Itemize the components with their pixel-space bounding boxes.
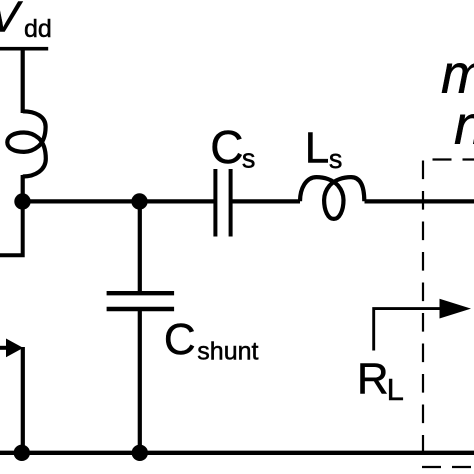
svg-text:s: s <box>329 144 343 174</box>
wire inductor to node A <box>21 175 25 203</box>
wire node B to Cshunt <box>138 202 142 294</box>
label Cshunt <box>164 315 259 366</box>
svg-text:L: L <box>387 372 404 407</box>
svg-text:L: L <box>305 124 329 173</box>
node C (source/ground junction) <box>14 445 30 461</box>
svg-text:shunt: shunt <box>197 337 258 365</box>
svg-text:C: C <box>210 121 243 173</box>
svg-text:n: n <box>454 94 474 156</box>
ground rail (bottom) <box>0 451 474 455</box>
capacitor Cs (series) <box>215 169 230 237</box>
wire Cshunt to ground rail <box>138 309 142 453</box>
svg-text:C: C <box>164 315 196 364</box>
Vdd supply bar <box>0 47 48 51</box>
wire Cs to Ls <box>231 199 300 203</box>
transistor source arrow (cropped at left edge) <box>0 346 9 350</box>
dashed matching-network boundary box <box>422 160 474 468</box>
node D (Cshunt/ground junction) <box>132 445 148 461</box>
wire source to ground rail <box>21 347 25 453</box>
svg-text:s: s <box>242 143 256 173</box>
wire drain stub (down and left, cropped transistor) <box>0 202 23 256</box>
wire Ls to load (crosses dashed boundary) <box>365 199 474 203</box>
inductor Ld (RF choke, vertical) <box>7 111 46 176</box>
wire node A to Cs <box>23 199 216 203</box>
node B (shunt node) <box>131 193 147 209</box>
capacitor Cshunt <box>107 293 175 309</box>
label Cs <box>210 121 255 173</box>
svg-text:R: R <box>357 354 389 403</box>
label RL <box>357 354 404 407</box>
label Vdd <box>0 0 52 43</box>
load arrow RL (into load) <box>374 309 440 351</box>
label Ls <box>305 124 343 174</box>
svg-text:dd: dd <box>24 15 52 43</box>
node A (drain node) <box>14 193 30 209</box>
wire Vdd bar to inductor <box>21 48 25 113</box>
inductor Ls (series, horizontal) <box>300 177 364 219</box>
